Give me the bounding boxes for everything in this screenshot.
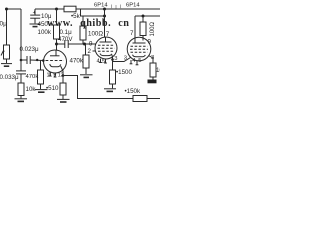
ground C1 xyxy=(30,23,41,25)
ground 10k xyxy=(15,98,28,100)
ground pot xyxy=(1,63,12,65)
ground solid V3 xyxy=(148,80,157,84)
svg-text:6P14: 6P14 xyxy=(126,3,140,9)
svg-text:7: 7 xyxy=(106,31,110,38)
V2 plate xyxy=(100,41,112,43)
wire plate V1 xyxy=(56,39,58,50)
svg-text:470V: 470V xyxy=(58,36,73,43)
svg-text:9: 9 xyxy=(89,41,93,48)
svg-text:3: 3 xyxy=(114,56,117,62)
svg-text:100Ω: 100Ω xyxy=(88,31,103,38)
svg-text:•150k: •150k xyxy=(125,88,141,95)
tube V2 circle xyxy=(95,37,117,59)
wire plate V2 xyxy=(104,9,106,37)
V1 grid dashed xyxy=(46,60,65,62)
screen line y16 xyxy=(81,9,105,16)
V3 grid pin link xyxy=(113,58,131,62)
V1 cathode xyxy=(50,64,61,67)
capacitor C1 plates xyxy=(30,14,40,16)
svg-text:470k: 470k xyxy=(26,74,39,80)
svg-text:www. qhibb. cn: www. qhibb. cn xyxy=(47,18,129,29)
node grid V2 xyxy=(83,43,86,46)
svg-text:•1500: •1500 xyxy=(116,69,132,76)
V2 grids dashed xyxy=(98,44,114,46)
svg-text:470k: 470k xyxy=(70,58,84,65)
node grid V1 xyxy=(42,59,45,62)
potentiometer RP xyxy=(4,45,10,59)
V2 bottom stubs xyxy=(100,59,102,63)
svg-text:5: 5 xyxy=(102,59,105,65)
svg-text:7: 7 xyxy=(130,30,134,37)
cap 0.033u xyxy=(20,60,22,71)
svg-text:2: 2 xyxy=(88,48,92,55)
svg-text:0.023μ: 0.023μ xyxy=(20,46,39,53)
wire input top xyxy=(7,8,22,10)
B+ rail xyxy=(35,8,160,10)
svg-text:0μ: 0μ xyxy=(0,21,7,28)
svg-text:100k: 100k xyxy=(38,29,52,36)
ground 470k V1 xyxy=(35,89,48,91)
node input xyxy=(5,8,8,11)
wire pot top xyxy=(6,9,8,45)
labels xyxy=(0,3,167,96)
wire input vertical xyxy=(20,9,22,60)
V3 grids dashed xyxy=(131,45,148,47)
node cathode V2 xyxy=(111,58,114,61)
node plate V1 xyxy=(55,43,58,46)
watermark ticks top xyxy=(110,5,122,9)
resistor 470k V1 xyxy=(40,60,42,70)
svg-text:11 9 12: 11 9 12 xyxy=(47,73,64,79)
resistor R 100k xyxy=(54,25,60,39)
V1 plate xyxy=(50,55,60,57)
wire to C2 xyxy=(57,43,65,45)
V3 bottom stubs xyxy=(130,60,132,64)
resistor 100ohm V3 xyxy=(142,16,144,22)
svg-text:9: 9 xyxy=(148,39,152,46)
svg-text:100Ω: 100Ω xyxy=(150,21,156,36)
svg-text:•510: •510 xyxy=(46,85,59,92)
ground 150 xyxy=(104,88,116,90)
resistor 150 cathode V2 xyxy=(112,60,114,71)
svg-text:0.1μ: 0.1μ xyxy=(60,29,73,36)
V3 cathode xyxy=(133,55,146,57)
V2 cathode xyxy=(100,54,112,56)
capacitor C2 0.1u plates xyxy=(64,40,66,48)
svg-text:0.033μ: 0.033μ xyxy=(0,74,19,81)
svg-text:10k: 10k xyxy=(26,86,37,93)
wire C2 to V2 grid xyxy=(68,43,96,45)
capacitor C1 10u 450V stem xyxy=(34,9,36,15)
pin 2 stub V2 xyxy=(93,50,96,52)
feedback wire xyxy=(63,76,160,99)
svg-text:5: 5 xyxy=(138,58,141,64)
V3 plate xyxy=(133,42,146,44)
resistor R 5k xyxy=(64,6,76,12)
node screen right xyxy=(142,15,145,18)
wire pot bottom xyxy=(6,59,8,63)
tube V3 circle xyxy=(127,37,151,61)
svg-text:3: 3 xyxy=(151,55,154,61)
resistor 510 xyxy=(62,76,64,84)
svg-text:6P14: 6P14 xyxy=(94,3,108,9)
resistor 10k xyxy=(18,83,24,96)
resistor 150k xyxy=(133,96,147,102)
V1 cathode pin xyxy=(61,66,63,76)
svg-text:+: + xyxy=(33,10,36,16)
resistor R 100ohm screen V2 xyxy=(82,16,84,26)
V1 bottom stubs xyxy=(49,72,51,76)
V2 cathode pin xyxy=(111,55,114,60)
svg-text:3: 3 xyxy=(124,56,127,62)
node rail V2 xyxy=(103,8,106,11)
grid resistor 470k V2 xyxy=(85,44,87,55)
svg-text:10k: 10k xyxy=(156,67,160,74)
tube V1 driver circle xyxy=(44,50,67,73)
ground 510 xyxy=(57,98,70,100)
node B+ xyxy=(55,8,58,11)
V3 cathode pin right xyxy=(149,56,154,64)
wire 100k top xyxy=(56,9,58,25)
ground 470k V2 xyxy=(80,74,93,76)
node cathode V1 xyxy=(62,74,65,77)
input cap 0.023u xyxy=(20,59,23,62)
screen line right xyxy=(135,15,160,17)
resistor 10k V3 xyxy=(150,63,156,77)
